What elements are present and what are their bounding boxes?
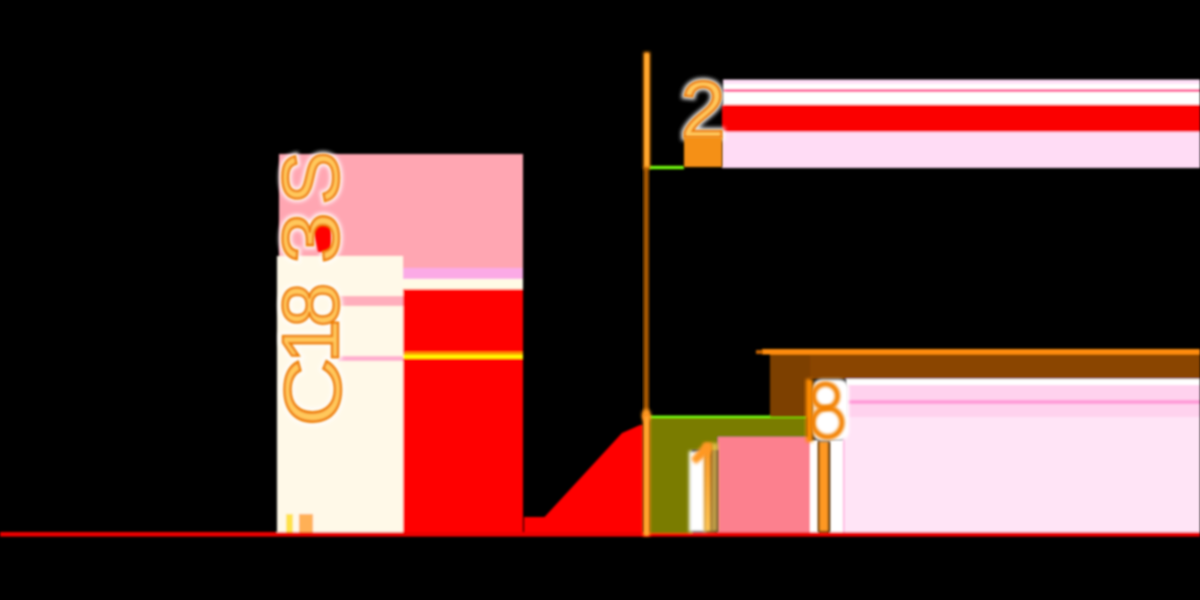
pin 1 label stem	[704, 443, 712, 532]
red patch behind label digit 3	[312, 224, 331, 252]
pin 3 label upper bump	[814, 384, 838, 408]
cream column behind label	[277, 256, 403, 532]
part label S	[266, 151, 357, 426]
upper-right deep pink line	[846, 400, 1200, 404]
emitter junction dot	[642, 409, 651, 421]
olive bar right of pin1 wire	[649, 418, 692, 533]
emitter wire pin 1	[643, 415, 650, 536]
orange streak at cream column bottom	[299, 514, 313, 532]
base bar (red rectangle)	[403, 289, 523, 536]
base lead orange line	[762, 349, 1200, 355]
pin 3 label lower bump	[813, 408, 842, 437]
emitter arrow (filled diagonal)	[527, 425, 643, 536]
svg-text:1: 1	[266, 319, 355, 364]
yellow streak at cream column bottom	[286, 514, 293, 532]
svg-text:3: 3	[267, 212, 356, 263]
white column right of pin3 wire	[830, 440, 843, 532]
olive band extension near pin 1	[649, 418, 720, 450]
pin 1 label white column glow	[689, 451, 706, 532]
left bright-pink band	[279, 268, 523, 279]
green line at emitter junction	[648, 416, 807, 419]
svg-text:C: C	[267, 358, 357, 427]
pin 1 label flag	[691, 443, 711, 464]
brown block below pin3 lead	[770, 354, 810, 417]
olive band under green line	[649, 418, 807, 437]
pink streak left of rect at yellow line level	[338, 356, 403, 361]
top-right pale pink strip	[723, 80, 1200, 85]
yellow line orange fringe	[403, 352, 523, 355]
pin 2 orange block	[684, 137, 722, 167]
base lead line dark tip	[756, 350, 763, 354]
pin 1 label right amber strip	[711, 443, 718, 532]
magenta hairline left edge of pink	[842, 417, 845, 532]
top-right magenta hairline	[723, 89, 1200, 92]
collector wire pin 2	[644, 52, 651, 169]
salmon block right of pin 1	[718, 437, 810, 532]
pin 3 label stem	[806, 379, 813, 442]
left pink block behind label	[279, 154, 523, 268]
upper-right pink block	[846, 385, 1200, 417]
collector-emitter middle wire (dim)	[644, 167, 648, 417]
part label white glow	[266, 151, 357, 426]
pin 3 label white glow	[812, 379, 849, 441]
pin 3 wire below label	[819, 441, 830, 532]
emitter arrow foot	[524, 517, 548, 536]
svg-text:S: S	[266, 151, 355, 204]
top-right pink band	[722, 132, 1200, 168]
bottom rail red line	[0, 532, 1200, 537]
top-right red band	[722, 105, 1200, 133]
green stub at collector	[649, 166, 684, 169]
top-right white band	[723, 84, 1200, 105]
upper-right white streak	[846, 379, 1200, 385]
brown band pin3 lead shadow	[770, 354, 1200, 379]
left cream band above red rect	[300, 279, 523, 289]
pink streak left of rect upper	[338, 296, 403, 306]
white column left of pin3 wire	[810, 440, 818, 532]
lower-right pink block	[843, 417, 1200, 532]
yellow line across base bar	[403, 355, 523, 359]
